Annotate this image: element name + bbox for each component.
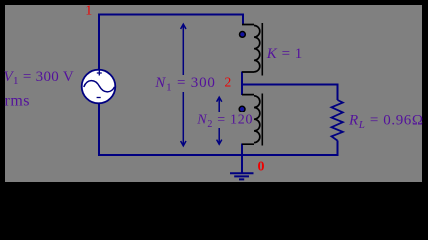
wire: secondary bottom to ground stem — [241, 144, 243, 173]
arrow N1 shaft — [182, 25, 184, 145]
label N2 background box — [195, 112, 253, 128]
wire: left side below source to bottom rail — [98, 103, 100, 155]
transformer primary winding L1 — [242, 25, 260, 73]
voltage source V1 circle — [82, 70, 116, 104]
svg-text:rms: rms — [5, 93, 31, 110]
transformer secondary polarity dot — [239, 106, 245, 112]
wire: load bottom lead — [337, 141, 339, 157]
arrow N2 bottom head — [217, 140, 222, 145]
arrow N2 top head — [217, 97, 222, 102]
ground symbol — [230, 173, 254, 179]
schematic gray canvas — [5, 5, 422, 182]
svg-text:0: 0 — [258, 160, 265, 175]
resistor RL zigzag — [332, 100, 343, 141]
wire: load top lead — [337, 84, 339, 101]
arrow N2 shaft — [218, 98, 220, 144]
wire: node 2 horizontal to load — [242, 84, 338, 86]
svg-text:N1 = 300: N1 = 300 — [154, 75, 215, 94]
svg-text:K = 1: K = 1 — [266, 46, 303, 62]
transformer primary core line — [261, 23, 263, 76]
svg-text:2: 2 — [225, 75, 232, 90]
wire: between primary bottom lead and secondary top lead (node 2 riser) — [241, 72, 243, 96]
wire: bottom rail — [98, 154, 339, 156]
arrow N1 top head — [181, 24, 186, 29]
voltage source minus sign — [97, 97, 101, 99]
wire: top loop from source top to transformer primary top — [99, 15, 243, 71]
voltage source sine wave — [84, 81, 115, 92]
arrow N1 bottom head — [181, 141, 186, 146]
transformer primary polarity dot — [240, 32, 246, 38]
svg-text:1: 1 — [85, 3, 92, 18]
voltage source plus sign — [97, 71, 102, 76]
transformer secondary winding L2 — [242, 95, 260, 145]
label N1 background box — [152, 75, 217, 92]
svg-text:N2 = 120: N2 = 120 — [196, 112, 253, 129]
transformer secondary core line — [261, 94, 263, 146]
